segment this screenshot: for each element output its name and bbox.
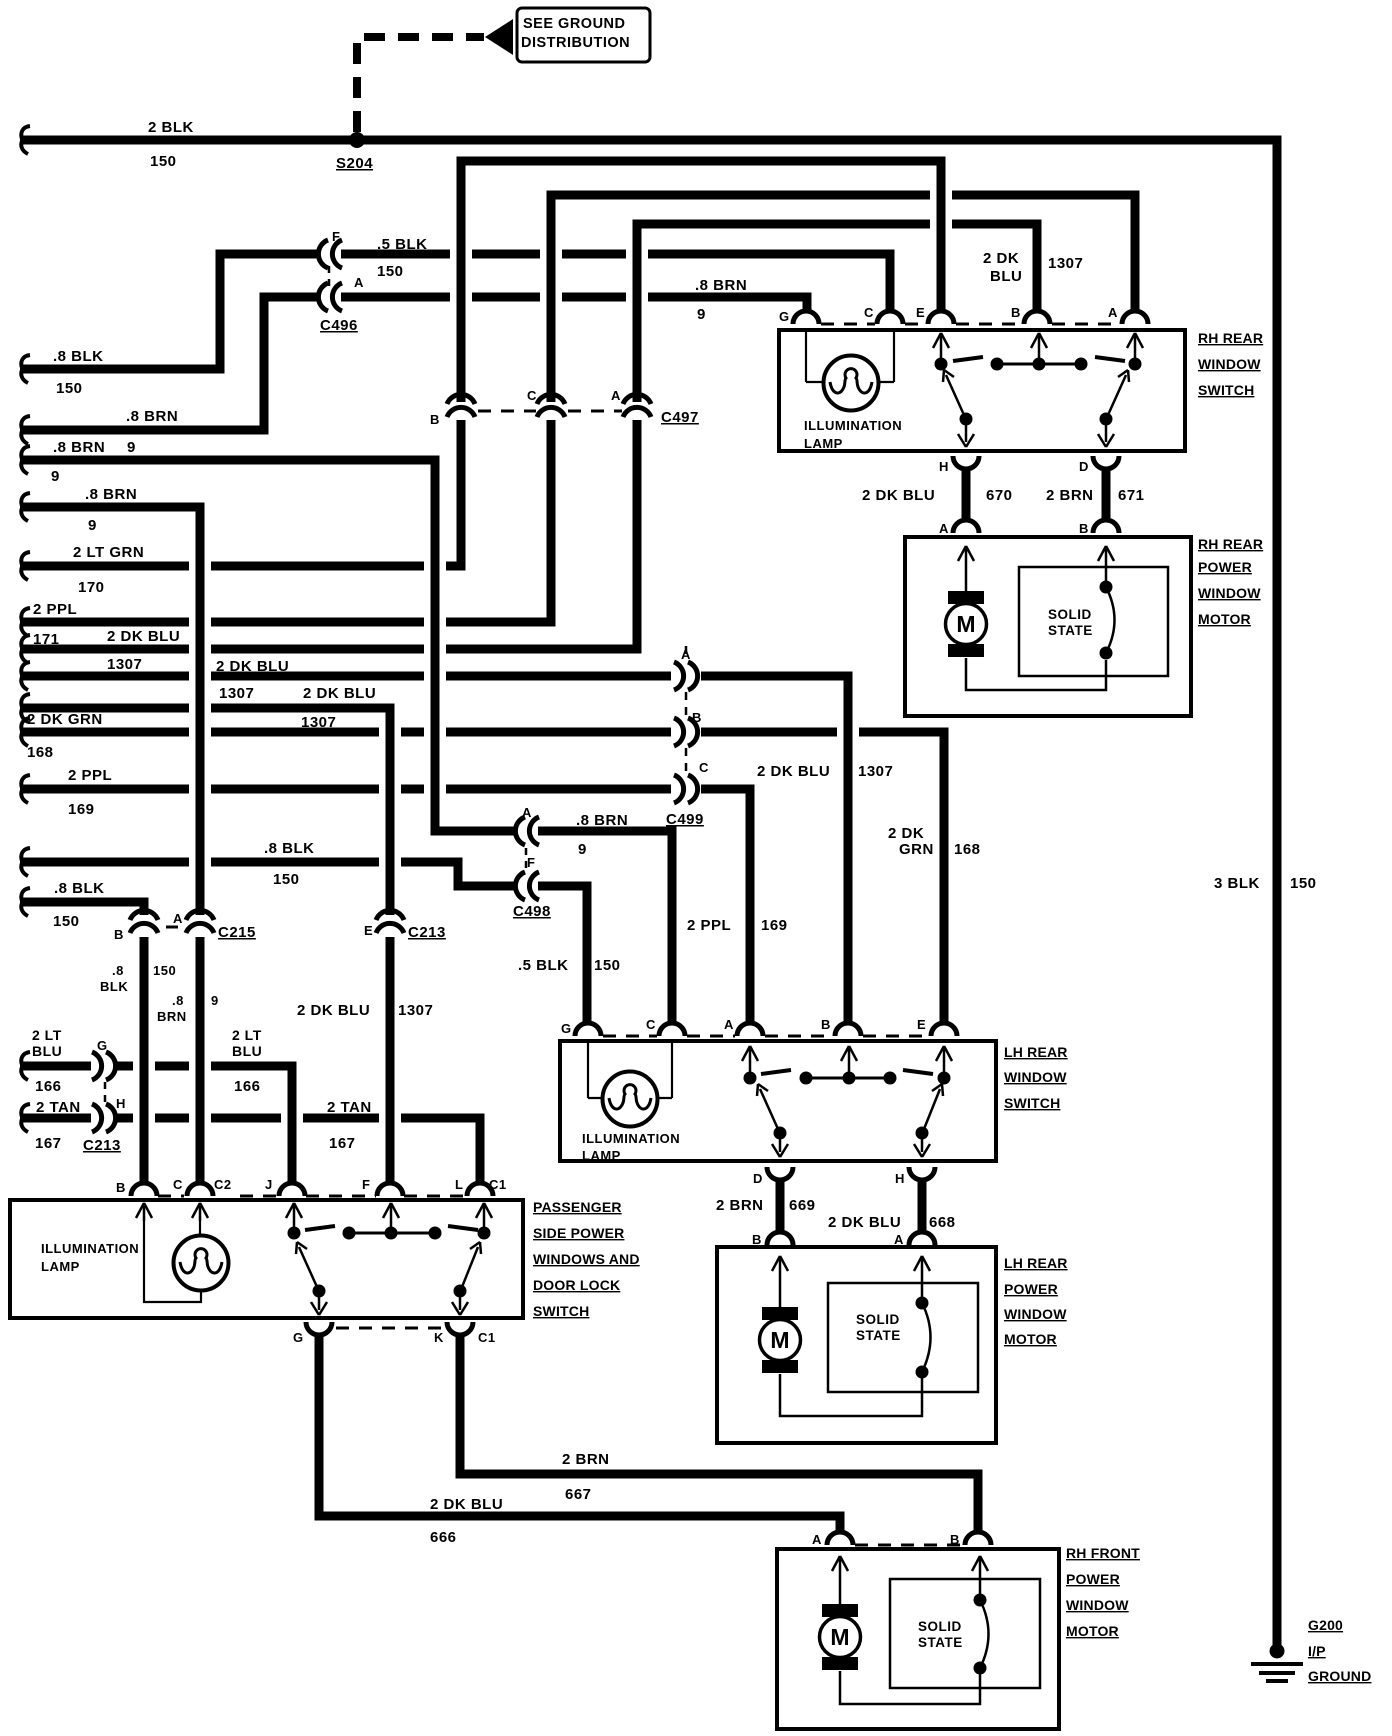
svg-text:671: 671 — [1118, 487, 1145, 504]
svg-text:2 TAN: 2 TAN — [36, 1099, 81, 1116]
svg-text:B: B — [116, 1180, 126, 1195]
svg-text:669: 669 — [789, 1197, 816, 1214]
motor M RH front — [839, 1559, 842, 1604]
svg-text:A: A — [812, 1532, 822, 1547]
svg-text:168: 168 — [27, 744, 54, 761]
svg-text:.8: .8 — [172, 993, 184, 1008]
svg-text:B: B — [692, 710, 702, 725]
svg-text:2 PPL: 2 PPL — [68, 767, 112, 784]
connector C213 pin H — [92, 1104, 102, 1132]
svg-text:2 DK BLU: 2 DK BLU — [828, 1214, 901, 1231]
svg-text:2 DK GRN: 2 DK GRN — [27, 711, 103, 728]
svg-text:G: G — [293, 1330, 304, 1345]
connector C496 pin F — [318, 240, 328, 268]
svg-text:SIDE POWER: SIDE POWER — [533, 1225, 624, 1241]
svg-text:2 DK BLU: 2 DK BLU — [216, 658, 289, 675]
wire 2 LT BLU 166 via C213 pin G to passenger switch pin J — [21, 1052, 30, 1080]
svg-text:G: G — [779, 309, 790, 324]
wire .8 BLK 150 via C498 pin F to LH rear switch pin G — [21, 848, 30, 876]
svg-text:D: D — [753, 1171, 763, 1186]
LH rear illumination lamp — [588, 1043, 672, 1098]
LH rear switch pin B — [835, 1023, 861, 1036]
svg-text:WINDOW: WINDOW — [1198, 585, 1261, 601]
svg-text:C1: C1 — [478, 1330, 496, 1345]
svg-text:F: F — [332, 229, 340, 244]
svg-text:.8: .8 — [112, 963, 124, 978]
RH rear switch pin G — [793, 311, 819, 324]
svg-text:.8 BLK: .8 BLK — [264, 840, 315, 857]
svg-text:SWITCH: SWITCH — [1004, 1095, 1060, 1111]
connector C499 pin C — [674, 775, 684, 803]
LH rear switch contacts — [744, 1072, 757, 1085]
svg-text:BLU: BLU — [32, 1043, 62, 1059]
svg-text:DOOR LOCK: DOOR LOCK — [533, 1277, 620, 1293]
passenger switch pin F — [377, 1183, 403, 1196]
wire 2 DK BLU 666 to RH front motor pin A — [319, 1334, 840, 1531]
svg-text:2 DK BLU: 2 DK BLU — [297, 1002, 370, 1019]
svg-text:G200: G200 — [1308, 1617, 1343, 1633]
svg-text:SOLID: SOLID — [856, 1312, 900, 1327]
svg-text:A: A — [894, 1232, 904, 1247]
wire 2 LT GRN 170 to RH rear switch pin E — [21, 552, 30, 580]
dashed connector line RH rear switch — [821, 323, 1120, 326]
svg-text:G: G — [97, 1038, 108, 1053]
svg-text:.8 BLK: .8 BLK — [54, 880, 105, 897]
svg-text:3 BLK: 3 BLK — [1214, 875, 1260, 892]
connector C215 pin B — [130, 910, 158, 920]
connector C498 pin A — [515, 817, 525, 845]
solid state module LH rear — [828, 1283, 978, 1392]
svg-text:BLU: BLU — [232, 1043, 262, 1059]
svg-text:2 DK BLU: 2 DK BLU — [862, 487, 935, 504]
svg-text:C1: C1 — [489, 1177, 507, 1192]
svg-text:666: 666 — [430, 1529, 457, 1546]
svg-text:WINDOW: WINDOW — [1004, 1069, 1067, 1085]
svg-text:STATE: STATE — [1048, 623, 1093, 638]
svg-text:2 PPL: 2 PPL — [687, 917, 731, 934]
RH rear switch pin E — [928, 311, 954, 324]
motor pin A — [953, 520, 979, 533]
svg-text:C498: C498 — [513, 903, 551, 920]
passenger side power windows and door lock switch box — [10, 1200, 523, 1318]
dashed line passenger bottom pins — [336, 1327, 444, 1330]
dashed line RH front pins — [855, 1544, 963, 1547]
svg-text:169: 169 — [68, 801, 95, 818]
svg-text:1307: 1307 — [107, 656, 142, 673]
svg-text:M: M — [956, 611, 975, 637]
svg-text:MOTOR: MOTOR — [1198, 611, 1251, 627]
LH rear switch pin E — [931, 1023, 957, 1036]
dashed connector line passenger switch — [158, 1195, 466, 1198]
svg-text:H: H — [939, 459, 949, 474]
svg-text:GROUND: GROUND — [1308, 1668, 1371, 1684]
svg-text:BLU: BLU — [990, 268, 1022, 285]
svg-text:C: C — [173, 1177, 183, 1192]
svg-text:LAMP: LAMP — [41, 1259, 80, 1274]
LH rear switch pin A — [737, 1023, 763, 1036]
svg-text:1307: 1307 — [1048, 255, 1083, 272]
wire 2 DK GRN 168 via C499 pin B to LH rear switch pin E — [21, 718, 30, 746]
passenger illumination lamp — [143, 1206, 146, 1221]
svg-text:2 BLK: 2 BLK — [148, 119, 194, 136]
wire 2 TAN 167 via C213 pin H to passenger switch pin L — [21, 1104, 30, 1132]
wire .8 BRN 9 down to C215 pin A and passenger switch pin C — [21, 493, 30, 521]
RH rear switch pin H — [953, 456, 979, 469]
svg-text:J: J — [265, 1177, 273, 1192]
svg-text:C499: C499 — [666, 811, 704, 828]
RH rear switch pin B — [1024, 311, 1050, 324]
LH rear switch pin G — [575, 1023, 601, 1036]
svg-text:2 LT GRN: 2 LT GRN — [73, 544, 144, 561]
svg-text:2 DK: 2 DK — [888, 825, 924, 842]
svg-text:9: 9 — [51, 468, 60, 485]
svg-text:2 TAN: 2 TAN — [327, 1099, 372, 1116]
wire 2 BRN 669 — [776, 1180, 785, 1230]
wire 2 DK BLU 1307 via C499 pin A to LH rear switch pin B — [21, 662, 30, 690]
dashed line C497 — [478, 410, 622, 413]
ground G200 — [1270, 1644, 1285, 1659]
svg-text:150: 150 — [56, 380, 83, 397]
svg-text:.8 BRN: .8 BRN — [85, 486, 137, 503]
wire - dashed ground distribution reference — [357, 37, 484, 132]
dashed connector line LH rear switch — [603, 1035, 929, 1038]
svg-text:150: 150 — [53, 913, 80, 930]
svg-text:2 DK BLU: 2 DK BLU — [107, 628, 180, 645]
svg-text:668: 668 — [929, 1214, 956, 1231]
LH rear window switch box — [560, 1041, 996, 1161]
svg-text:POWER: POWER — [1198, 559, 1252, 575]
svg-text:WINDOW: WINDOW — [1004, 1306, 1067, 1322]
svg-text:150: 150 — [150, 153, 177, 170]
motor pin A RH front — [827, 1532, 853, 1545]
passenger switch pin K — [447, 1322, 473, 1335]
svg-text:C: C — [646, 1017, 656, 1032]
svg-text:BRN: BRN — [157, 1009, 187, 1024]
svg-text:C496: C496 — [320, 317, 358, 334]
svg-text:A: A — [939, 521, 949, 536]
svg-text:C215: C215 — [218, 924, 256, 941]
svg-text:B: B — [821, 1017, 831, 1032]
svg-text:150: 150 — [153, 963, 176, 978]
svg-text:ILLUMINATION: ILLUMINATION — [41, 1241, 139, 1256]
connector C215 pin A — [186, 910, 214, 920]
svg-text:B: B — [752, 1232, 762, 1247]
svg-text:WINDOW: WINDOW — [1198, 356, 1261, 372]
svg-text:RH FRONT: RH FRONT — [1066, 1545, 1140, 1561]
svg-text:.5 BLK: .5 BLK — [518, 957, 569, 974]
wire 2 BRN 667 to RH front motor pin B — [460, 1334, 978, 1531]
svg-text:F: F — [527, 855, 535, 870]
LH rear switch pin H — [909, 1167, 935, 1180]
svg-text:BLK: BLK — [100, 979, 128, 994]
svg-text:.8 BRN: .8 BRN — [695, 277, 747, 294]
RH rear power window motor box — [905, 537, 1191, 716]
connector C497 pin A — [623, 394, 651, 404]
wire .8 BRN 9 from C496 A to RH rear switch pin G — [341, 297, 807, 310]
svg-text:LAMP: LAMP — [804, 436, 843, 451]
RH rear switch pin A — [1122, 311, 1148, 324]
connector C496 pin A — [318, 283, 328, 311]
RH front power window motor box — [777, 1549, 1059, 1729]
svg-text:2 DK: 2 DK — [983, 250, 1019, 267]
svg-text:WINDOW: WINDOW — [1066, 1597, 1129, 1613]
svg-text:WINDOWS AND: WINDOWS AND — [533, 1251, 640, 1267]
svg-text:170: 170 — [78, 579, 105, 596]
svg-text:SEE GROUND: SEE GROUND — [523, 16, 626, 32]
svg-text:C2: C2 — [214, 1177, 232, 1192]
motor M LH rear — [779, 1259, 782, 1308]
svg-text:D: D — [1079, 459, 1089, 474]
svg-text:A: A — [173, 911, 183, 926]
wire .8 BLK 150 to C496 pin F — [21, 355, 30, 383]
svg-text:MOTOR: MOTOR — [1066, 1623, 1119, 1639]
svg-text:I/P: I/P — [1308, 1643, 1326, 1659]
svg-text:2 BRN: 2 BRN — [562, 1451, 610, 1468]
svg-text:167: 167 — [35, 1135, 62, 1152]
svg-text:C: C — [527, 388, 537, 403]
svg-text:A: A — [354, 275, 364, 290]
motor M RH rear — [965, 549, 968, 592]
svg-text:H: H — [116, 1096, 126, 1111]
svg-text:E: E — [364, 923, 373, 938]
svg-text:ILLUMINATION: ILLUMINATION — [804, 418, 902, 433]
connector C498 pin F — [515, 872, 525, 900]
svg-text:E: E — [916, 305, 925, 320]
svg-text:B: B — [114, 927, 124, 942]
wire 2 DK BLU 1307 down to C213 pin E and passenger switch pin F — [21, 694, 30, 722]
svg-text:1307: 1307 — [858, 763, 893, 780]
svg-text:LAMP: LAMP — [582, 1148, 621, 1163]
svg-text:C: C — [864, 305, 874, 320]
svg-text:M: M — [830, 1624, 849, 1650]
svg-text:167: 167 — [329, 1135, 356, 1152]
svg-text:M: M — [770, 1327, 789, 1353]
svg-text:C497: C497 — [661, 409, 699, 426]
svg-text:STATE: STATE — [918, 1635, 963, 1650]
passenger switch pin G — [306, 1322, 332, 1335]
wire .8 BLK 150 down to C215 pin B and passenger switch pin B — [21, 888, 30, 916]
svg-text:9: 9 — [697, 306, 706, 323]
motor pin B — [1093, 520, 1119, 533]
wire .8 BRN 9 to C496 pin A — [21, 416, 30, 444]
svg-text:1307: 1307 — [219, 685, 254, 702]
connector C499 pin B — [674, 718, 684, 746]
svg-text:POWER: POWER — [1066, 1571, 1120, 1587]
LH rear switch pin D — [767, 1167, 793, 1180]
svg-text:150: 150 — [1290, 875, 1317, 892]
svg-text:GRN: GRN — [899, 841, 934, 858]
svg-text:POWER: POWER — [1004, 1281, 1058, 1297]
svg-text:168: 168 — [954, 841, 981, 858]
svg-text:2 LT: 2 LT — [32, 1027, 62, 1043]
svg-text:H: H — [895, 1171, 905, 1186]
LH rear power window motor box — [717, 1247, 996, 1443]
svg-text:C213: C213 — [408, 924, 446, 941]
svg-text:2 BRN: 2 BRN — [1046, 487, 1094, 504]
passenger switch pin J — [279, 1183, 305, 1196]
svg-text:K: K — [434, 1330, 444, 1345]
svg-text:ILLUMINATION: ILLUMINATION — [582, 1131, 680, 1146]
passenger switch contacts — [288, 1227, 301, 1240]
svg-text:B: B — [430, 412, 440, 427]
svg-text:150: 150 — [273, 871, 300, 888]
wire 2 PPL 169 via C499 pin C to LH rear switch pin A — [21, 775, 30, 803]
svg-text:RH REAR: RH REAR — [1198, 330, 1263, 346]
svg-text:STATE: STATE — [856, 1328, 901, 1343]
svg-text:.8 BRN: .8 BRN — [126, 408, 178, 425]
RH rear switch pin D — [1093, 456, 1119, 469]
LH rear switch pin C — [659, 1023, 685, 1036]
motor pin B RH front — [965, 1532, 991, 1545]
svg-text:166: 166 — [234, 1078, 261, 1095]
wire 2 DK BLU 1307 to RH rear switch pin B — [21, 635, 30, 663]
svg-text:670: 670 — [986, 487, 1013, 504]
svg-text:A: A — [611, 388, 621, 403]
svg-text:A: A — [1108, 305, 1118, 320]
svg-text:2 BRN: 2 BRN — [716, 1197, 764, 1214]
motor pin B LH rear — [767, 1232, 793, 1245]
passenger switch pin B — [131, 1183, 157, 1196]
svg-text:DISTRIBUTION: DISTRIBUTION — [521, 35, 630, 51]
svg-text:166: 166 — [35, 1078, 62, 1095]
RH rear window switch box — [779, 330, 1185, 451]
svg-text:MOTOR: MOTOR — [1004, 1331, 1057, 1347]
svg-text:C: C — [699, 760, 709, 775]
wire 2 PPL 171 to RH rear switch pin A — [21, 608, 30, 636]
svg-text:LH REAR: LH REAR — [1004, 1044, 1068, 1060]
svg-text:667: 667 — [565, 1486, 592, 1503]
arrow to see-ground-distribution box — [485, 19, 513, 55]
svg-text:9: 9 — [88, 517, 97, 534]
svg-text:F: F — [362, 1177, 370, 1192]
svg-text:.8 BRN: .8 BRN — [53, 439, 105, 456]
svg-text:SWITCH: SWITCH — [1198, 382, 1254, 398]
RH rear switch pin C — [877, 311, 903, 324]
motor pin A LH rear — [909, 1232, 935, 1245]
svg-text:.8 BRN: .8 BRN — [576, 812, 628, 829]
svg-text:A: A — [522, 805, 532, 820]
wire .5 BLK 150 from C496 F to RH rear switch pin C — [341, 254, 890, 310]
svg-text:.8 BLK: .8 BLK — [53, 348, 104, 365]
connector C497 pin B — [447, 394, 475, 404]
svg-text:PASSENGER: PASSENGER — [533, 1199, 622, 1215]
wire 2 DK BLU 670 — [962, 469, 971, 518]
wire 2 DK BLU 668 — [918, 1180, 927, 1230]
svg-text:2 DK BLU: 2 DK BLU — [303, 685, 376, 702]
svg-text:RH REAR: RH REAR — [1198, 536, 1263, 552]
wire 2 BLK 150 feed to G200 ground — [21, 126, 30, 154]
splice S204 — [349, 132, 365, 148]
solid state module RH rear — [1019, 567, 1168, 676]
svg-text:.5 BLK: .5 BLK — [377, 236, 428, 253]
svg-text:B: B — [1079, 521, 1089, 536]
connector C497 pin C — [537, 394, 565, 404]
svg-text:LH REAR: LH REAR — [1004, 1255, 1068, 1271]
svg-text:SOLID: SOLID — [918, 1619, 962, 1634]
svg-text:150: 150 — [594, 957, 621, 974]
svg-text:2 LT: 2 LT — [232, 1027, 262, 1043]
svg-text:9: 9 — [578, 841, 587, 858]
passenger switch pin C — [187, 1183, 213, 1196]
RH rear switch contacts — [935, 358, 948, 371]
svg-text:E: E — [917, 1017, 926, 1032]
svg-text:2 DK BLU: 2 DK BLU — [757, 763, 830, 780]
svg-text:1307: 1307 — [398, 1002, 433, 1019]
svg-text:B: B — [1011, 305, 1021, 320]
connector C499 pin A — [674, 662, 684, 690]
svg-text:150: 150 — [377, 263, 404, 280]
svg-text:L: L — [455, 1177, 463, 1192]
wire .8 BRN 9 via C498 pin A to LH rear switch pin C — [21, 446, 30, 474]
svg-text:G: G — [561, 1021, 572, 1036]
solid state module RH front — [890, 1579, 1040, 1688]
connector C213 pin G — [92, 1052, 102, 1080]
svg-text:2 PPL: 2 PPL — [33, 601, 77, 618]
passenger switch pin L — [467, 1183, 493, 1196]
svg-text:C213: C213 — [83, 1137, 121, 1154]
wire 2 BRN 671 — [1102, 469, 1111, 518]
svg-text:9: 9 — [127, 439, 136, 456]
svg-text:169: 169 — [761, 917, 788, 934]
note box SEE GROUND DISTRIBUTION — [517, 8, 650, 62]
svg-text:SWITCH: SWITCH — [533, 1303, 589, 1319]
RH rear illumination lamp — [806, 332, 894, 382]
svg-text:9: 9 — [211, 993, 219, 1008]
svg-text:SOLID: SOLID — [1048, 607, 1092, 622]
svg-text:A: A — [724, 1017, 734, 1032]
svg-text:S204: S204 — [336, 155, 373, 172]
svg-text:2 DK BLU: 2 DK BLU — [430, 1496, 503, 1513]
connector C213 pin E — [376, 910, 404, 920]
